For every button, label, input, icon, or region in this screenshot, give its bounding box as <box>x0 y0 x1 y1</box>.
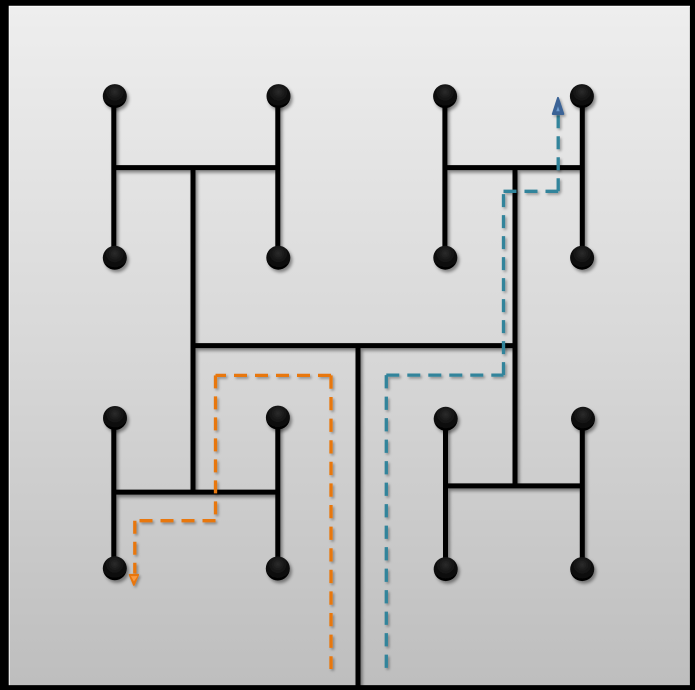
blue arrowhead <box>553 98 564 114</box>
terminal node TR-1 <box>433 84 457 108</box>
top-left H crossbar <box>114 165 279 170</box>
top-right H crossbar <box>445 165 582 170</box>
terminal node BL-4 <box>266 557 290 581</box>
bottom-right H crossbar <box>445 483 582 488</box>
terminal node TL-2 <box>267 84 291 108</box>
top-right H left branch <box>442 96 447 258</box>
blue route leg 3 <box>502 191 505 375</box>
terminal node TR-4 <box>570 246 594 270</box>
terminal node BR-4 <box>570 557 594 581</box>
level-1 left vertical <box>191 168 196 493</box>
blue route leg 2 <box>386 373 503 376</box>
terminal node TR-3 <box>433 246 457 270</box>
bottom-left H crossbar <box>114 490 278 495</box>
level-1 crossbar <box>191 343 518 348</box>
orange route leg 3 <box>214 375 217 520</box>
terminal node BR-2 <box>571 407 595 431</box>
top-right H right branch <box>580 96 585 258</box>
level-1 right vertical <box>513 168 518 486</box>
top-left H right branch <box>275 96 280 258</box>
orange route leg 4 <box>135 519 216 522</box>
terminal node TR-2 <box>570 84 594 108</box>
orange arrowhead <box>130 575 139 585</box>
terminal node BL-1 <box>103 406 127 430</box>
orange route leg 2 <box>216 374 332 377</box>
terminal node TL-1 <box>103 84 127 108</box>
bottom-right H left branch <box>443 419 448 569</box>
terminal node TL-3 <box>103 246 127 270</box>
orange route leg 1 (riser) <box>329 375 332 669</box>
terminal node BL-2 <box>266 406 290 430</box>
terminal node BR-3 <box>434 557 458 581</box>
terminal node BR-1 <box>434 407 458 431</box>
bottom-left H right branch <box>275 418 280 569</box>
blue route leg 1 (riser) <box>385 375 388 668</box>
top-left H left branch <box>111 96 116 258</box>
orange route leg 5 <box>133 521 136 574</box>
terminal node BL-3 <box>103 556 127 580</box>
terminal node TL-4 <box>266 246 290 270</box>
bottom-left H left branch <box>111 418 116 568</box>
bottom-right H right branch <box>580 419 585 569</box>
blue route leg 5 <box>557 115 560 192</box>
trunk wire <box>356 346 361 687</box>
blue route leg 4 <box>504 190 559 193</box>
